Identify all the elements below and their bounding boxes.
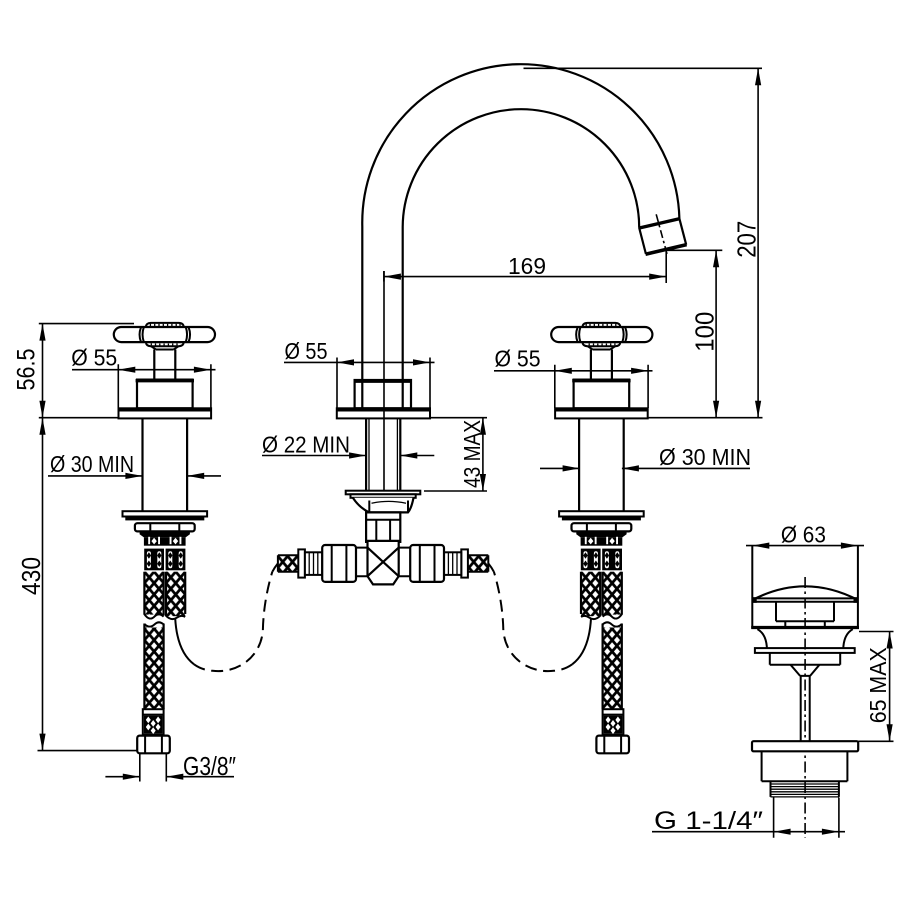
tee arm braid stub — [278, 555, 298, 572]
dim Ø55 right extension lines — [555, 365, 648, 408]
supply hose upper braid — [144, 572, 163, 615]
svg-text:65 MAX: 65 MAX — [865, 647, 891, 723]
dim 430 bottom extension line — [38, 750, 138, 752]
dim G 1-1/4 extension lines — [774, 798, 839, 838]
connection hose curve solid end — [272, 563, 278, 571]
drain centerline dash-dot — [804, 577, 806, 838]
spout flange — [337, 408, 430, 418]
dim Ø63 line — [746, 545, 864, 547]
dim 430 line — [42, 418, 44, 751]
svg-text:43 MAX: 43 MAX — [459, 420, 485, 488]
drain neck flare — [757, 629, 852, 648]
tee washer plate — [346, 491, 421, 495]
dim 169 line — [384, 276, 666, 278]
tee washer lip — [351, 494, 416, 498]
dim 43 MAX extension lines — [424, 418, 487, 491]
svg-text:Ø 30 MIN: Ø 30 MIN — [50, 451, 134, 477]
dim G 1-1/4 line — [652, 831, 845, 833]
svg-text:Ø 55: Ø 55 — [71, 345, 117, 371]
valve body block — [137, 380, 193, 409]
tee top hex nut facets — [369, 501, 408, 513]
svg-text:G3/8″: G3/8″ — [183, 751, 236, 781]
connection hose curve solid start — [175, 618, 194, 664]
connection hose braid end curve — [166, 616, 185, 622]
hub side curves — [140, 328, 144, 342]
ferrule block right hose — [166, 549, 186, 571]
drain cone — [791, 665, 820, 676]
drain cap side / extension lines — [752, 546, 858, 629]
svg-text:Ø 30 MIN: Ø 30 MIN — [659, 444, 751, 470]
aerator joint bold line — [639, 219, 680, 229]
aerator left side — [639, 228, 646, 254]
backnut facets — [150, 523, 179, 531]
drain thread section — [771, 781, 839, 797]
spout base block — [355, 380, 411, 408]
tee arm union nut — [322, 545, 356, 582]
dim Ø55 left extension lines — [118, 364, 211, 408]
spout tube outer edge — [362, 64, 679, 408]
body block top bold edge — [136, 379, 194, 382]
drain cap inner structure — [776, 602, 834, 628]
spout flange top bold edge — [337, 408, 430, 411]
tee arm neck lines — [356, 548, 368, 577]
backnut — [135, 523, 195, 531]
aerator right side — [679, 219, 686, 245]
rubber seal bar — [125, 517, 204, 521]
dim G3/8 extension lines — [140, 753, 167, 781]
svg-text:Ø 22 MIN: Ø 22 MIN — [262, 432, 350, 458]
dim 56.5 line — [42, 324, 44, 418]
supply hose end ferrule — [143, 709, 164, 735]
supply hose break symbol — [144, 614, 163, 621]
dim G3/8 line — [105, 776, 234, 778]
dim Ø30 left line — [48, 475, 221, 477]
dim Ø30 right line — [540, 467, 750, 469]
ferrule block left hose — [144, 549, 164, 571]
drain body ring — [770, 653, 840, 665]
aerator end face bold line — [646, 245, 687, 255]
tee body X cross — [368, 548, 399, 577]
supply hose end nut G3/8 — [137, 736, 170, 754]
drain rod — [801, 676, 810, 741]
hub bottom cap — [146, 342, 184, 346]
threaded shank — [143, 418, 188, 511]
svg-text:100: 100 — [690, 312, 720, 352]
dim 100 line — [715, 250, 717, 417]
drain cap dome — [752, 586, 858, 600]
dim Ø55 center extension lines — [337, 358, 430, 409]
hose crimp collar flare — [140, 532, 190, 537]
tee adapter hex — [366, 512, 400, 542]
dim 56.5 extension lines — [39, 324, 134, 418]
drain lower body — [762, 751, 848, 781]
handle cross bar — [114, 327, 215, 342]
dim Ø22 line — [262, 455, 434, 457]
svg-text:G 1-1/4″: G 1-1/4″ — [654, 807, 763, 835]
svg-text:169: 169 — [508, 253, 546, 279]
hub top cap — [146, 323, 184, 327]
hub bottom knurl dashes — [151, 343, 177, 346]
dim Ø55 right line — [494, 370, 653, 372]
dim 65 MAX extension lines — [858, 632, 893, 742]
drain cap bottom bold edge — [751, 626, 859, 629]
supply hose lower braid — [144, 628, 163, 710]
hub base trapezoid — [151, 346, 178, 349]
svg-text:56.5: 56.5 — [13, 349, 41, 391]
center axis extension line — [383, 271, 385, 491]
spout shank Ø22 — [366, 418, 400, 490]
aerator centerline dash-dot — [656, 214, 667, 256]
spout tube inner edge — [403, 109, 640, 408]
right half mirrored — [399, 323, 653, 753]
drain deck flange — [752, 741, 858, 751]
dim 43 MAX line — [482, 418, 484, 491]
tee top hex nut — [353, 498, 414, 513]
hub top knurl dashes — [150, 324, 180, 327]
connection hose braid (to tee) — [166, 572, 185, 617]
crimp white marks left hose — [148, 537, 181, 545]
connection hose curve dashed loop — [194, 572, 272, 671]
hose crimp collar body — [144, 537, 186, 545]
washer plate — [123, 511, 208, 516]
tee arm ridged section — [305, 552, 322, 575]
dim 207 extension lines — [524, 68, 763, 417]
spout shank thread depth lines — [369, 418, 397, 490]
spout tip extension line — [667, 249, 722, 251]
svg-text:Ø 63: Ø 63 — [781, 522, 826, 548]
tee body square — [368, 541, 399, 585]
svg-text:Ø 55: Ø 55 — [285, 338, 328, 364]
dim Ø55 left line — [72, 369, 216, 371]
handle stem — [154, 350, 175, 380]
flange top bold edge — [119, 408, 212, 411]
ferrule white slots and diamonds — [147, 551, 183, 568]
svg-text:Ø 55: Ø 55 — [495, 346, 541, 372]
tee arm collar — [298, 549, 305, 577]
base flange — [119, 408, 212, 418]
dim 65 MAX line — [889, 632, 891, 742]
drain cap rim — [752, 598, 858, 601]
drain washer plate — [755, 648, 855, 653]
dim Ø55 center line — [284, 361, 435, 363]
svg-text:430: 430 — [16, 557, 46, 595]
dim 169 extension lines — [384, 250, 666, 283]
dim 207 line — [757, 68, 759, 417]
spout base block top bold edge — [355, 380, 411, 383]
svg-text:207: 207 — [732, 221, 762, 258]
